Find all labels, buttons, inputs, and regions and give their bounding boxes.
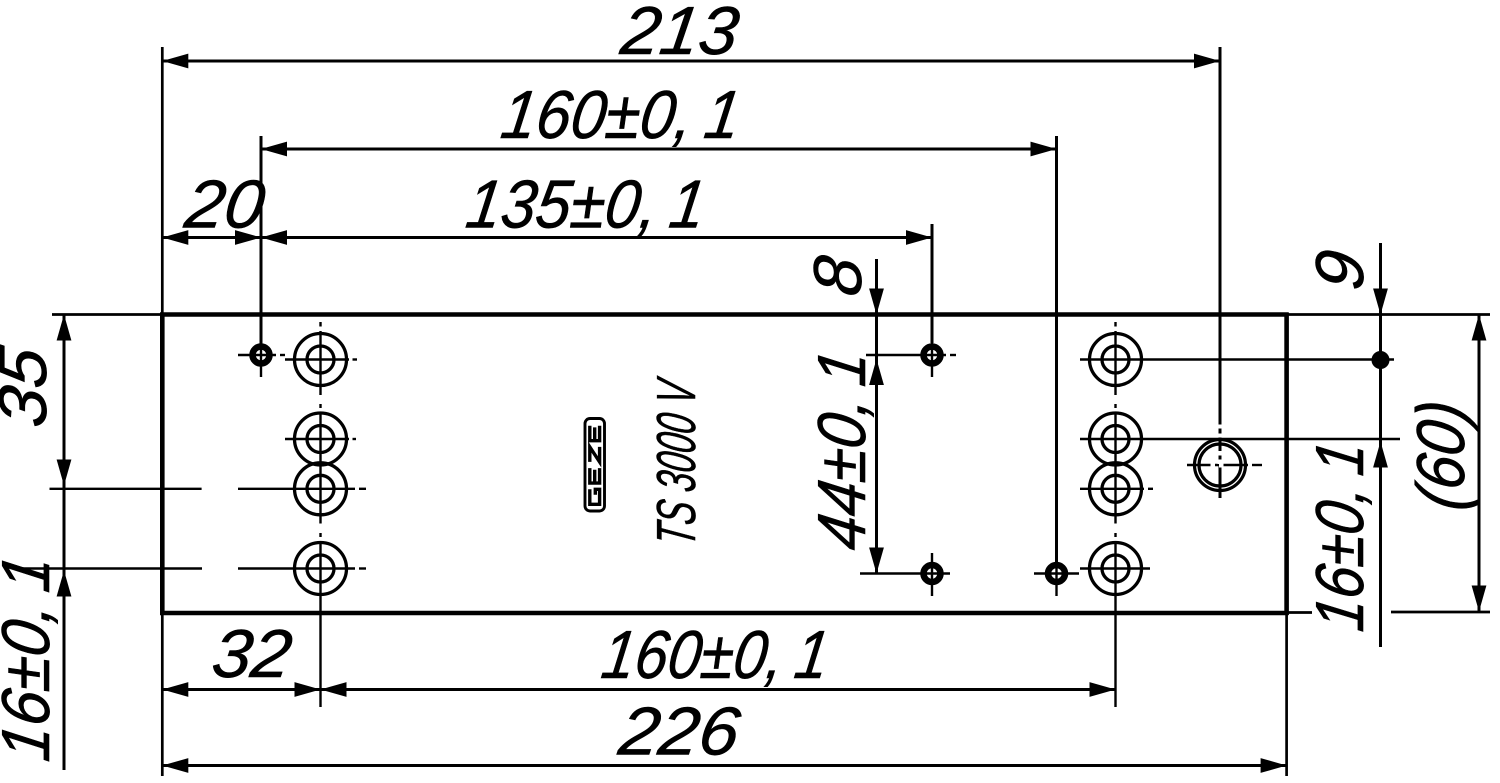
svg-text:35: 35	[0, 341, 61, 431]
dimension line 213	[162, 60, 1220, 63]
big hole right	[1195, 440, 1246, 491]
arrow 135 left	[261, 230, 287, 245]
arrow 226 left	[162, 758, 188, 773]
centerline break above big hole	[1218, 425, 1223, 429]
dimension line 8 / 44	[875, 259, 878, 574]
arrow 16 left up	[57, 571, 72, 597]
hole L3	[295, 463, 347, 515]
extension line at x1056.5	[1055, 136, 1058, 562]
row2 center line right	[1080, 438, 1400, 440]
arrow 16 right up	[1373, 442, 1388, 468]
GEZE letter Z	[590, 447, 600, 462]
small hole bottom-mid	[924, 565, 941, 582]
arrow 160top left	[261, 142, 287, 157]
arrow 35 bottom	[57, 460, 72, 486]
hole R3	[1090, 463, 1142, 515]
svg-text:(60): (60)	[1403, 395, 1479, 514]
GEZE letter G	[590, 489, 600, 504]
arrow 160bottom left	[321, 682, 347, 697]
crosshair small hole top-left vertical lower part	[260, 344, 262, 377]
svg-text:20: 20	[180, 167, 270, 243]
crosshair small hole mid-bottom vertical	[931, 553, 933, 596]
hole R4	[1090, 543, 1142, 595]
GEZE letter E2	[590, 426, 600, 441]
endpoint dot 9/16	[1372, 351, 1390, 369]
plate right edge extension below	[1285, 614, 1288, 776]
extension line at x1220 for 213	[1219, 47, 1222, 498]
crosshair small hole mid-bottom horizontal	[860, 572, 950, 574]
dimension line 160 top	[261, 148, 1057, 151]
dimension line 226	[162, 764, 1286, 767]
arrow 213 right	[1194, 54, 1220, 69]
crosshair hole L2 horizontal	[285, 438, 349, 440]
dimension line 9 / 16 right	[1379, 243, 1382, 647]
hole L2	[295, 413, 347, 465]
left column center line	[319, 322, 321, 327]
arrow 44 up	[869, 359, 884, 385]
crosshair small hole right-bottom vertical lower part	[1055, 560, 1057, 596]
arrow 160bottom right	[1090, 682, 1116, 697]
small hole top-mid	[924, 347, 941, 364]
row4 center line left seg1	[18, 567, 202, 569]
dimension line 35 / 16 left	[63, 315, 66, 771]
crosshair hole R3 horizontal	[1080, 488, 1144, 490]
plate left edge extension below	[161, 614, 164, 776]
crosshair big hole right horizontal	[1187, 464, 1248, 466]
arrow 60 top	[1472, 315, 1487, 341]
svg-text:135±0, 1: 135±0, 1	[462, 167, 711, 243]
svg-text:16±0, 1: 16±0, 1	[1302, 436, 1378, 635]
crosshair small hole right-bottom horizontal	[1034, 572, 1079, 574]
centerline break at big hole center vertical	[1218, 451, 1223, 456]
svg-text:160±0, 1: 160±0, 1	[497, 77, 746, 153]
extension line at x1220 lower part to hole	[1219, 432, 1221, 498]
arrow 135 right	[906, 230, 932, 245]
arrow 9 down	[1373, 289, 1388, 315]
row1 center line right	[1080, 358, 1394, 360]
row3 center line left dash	[359, 488, 366, 490]
plate top edge	[160, 312, 1289, 317]
svg-text:32: 32	[208, 616, 297, 692]
crosshair small hole mid-top horizontal	[866, 354, 946, 356]
arrow 20 left	[162, 230, 188, 245]
arrow 226 right	[1261, 758, 1287, 773]
crosshair hole L1 horizontal	[285, 358, 349, 360]
svg-text:TS 3000 V: TS 3000 V	[645, 373, 707, 549]
hole L1	[295, 334, 347, 386]
arrow 20 right	[235, 230, 261, 245]
arrow 60 bottom	[1472, 586, 1487, 612]
arrow 32 left	[162, 682, 188, 697]
svg-text:44±0, 1: 44±0, 1	[804, 345, 880, 554]
plate bottom edge	[160, 611, 1289, 616]
row3 center line left seg2	[238, 488, 355, 490]
GEZE letter E1	[590, 468, 600, 483]
extension line at x932	[931, 224, 934, 343]
row4 center line left seg2	[238, 567, 355, 569]
dimension line 32 and 160 bottom	[162, 688, 1115, 691]
plate left edge extension above	[161, 47, 164, 313]
extension line at x261	[260, 136, 263, 344]
plate top edge extension right	[1288, 313, 1490, 316]
arrow 160top right	[1031, 142, 1057, 157]
crosshair hole R4 horizontal	[1080, 567, 1150, 569]
plate bottom edge extension right seg2	[1391, 611, 1490, 614]
svg-text:226: 226	[614, 694, 745, 770]
plate bottom edge extension right seg1	[1288, 611, 1312, 614]
GEZE logo	[585, 419, 605, 512]
hole R1	[1090, 334, 1142, 386]
arrow 32 right	[295, 682, 321, 697]
arrow 44 down	[869, 548, 884, 574]
hole R2	[1090, 413, 1142, 465]
dimension line (60)	[1478, 315, 1481, 612]
crosshair small hole mid-top vertical lower part	[931, 343, 933, 377]
row3 center line left seg1	[50, 488, 202, 490]
row4 center line left dash	[359, 567, 366, 569]
right column center line	[1114, 322, 1116, 327]
small hole top-left	[253, 347, 270, 364]
arrow 213 left	[162, 54, 188, 69]
crosshair small hole top-left horizontal	[238, 354, 276, 356]
arrow 8 down	[869, 289, 884, 315]
centerline break at big hole center horizontal	[1211, 463, 1216, 468]
hole L4	[295, 543, 347, 595]
small hole bottom-right	[1048, 565, 1065, 582]
plate left edge	[160, 313, 165, 616]
svg-text:16±0, 1: 16±0, 1	[0, 550, 64, 765]
dimension line 20 and 135	[162, 236, 932, 239]
svg-text:213: 213	[616, 0, 744, 69]
svg-text:160±0, 1: 160±0, 1	[597, 617, 834, 693]
arrow 35 top	[57, 315, 72, 341]
plate right edge	[1284, 313, 1289, 616]
plate top edge extension left	[52, 313, 162, 316]
